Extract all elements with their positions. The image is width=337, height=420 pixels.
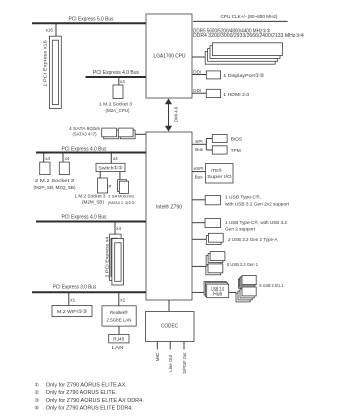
svg-text:Super I/O: Super I/O [207,174,232,180]
wire hub to 8 USB [229,291,236,293]
ports 8 USB upper stack [238,279,252,288]
svg-text:Gen 2 support: Gen 2 support [225,227,256,233]
wire eSPI bus [192,171,205,173]
M.2 socket M2Q_SB [59,162,69,175]
svg-text:1 HDMI 2.0: 1 HDMI 2.0 [223,92,249,98]
svg-text:Only for Z790 AORUS ELITE.: Only for Z790 AORUS ELITE. [46,390,117,396]
wire USB-C Gen2 [192,222,205,224]
ports 8 USB lower stack [236,293,250,302]
svg-text:SPI: SPI [195,139,202,144]
svg-text:x4: x4 [113,156,118,161]
svg-text:x1: x1 [120,298,125,303]
svg-text:①: ① [35,382,40,388]
svg-text:1 DisplayPort①②: 1 DisplayPort①② [223,73,265,79]
iTE Super I/O box [205,164,233,183]
wire SPI bus [192,143,206,145]
svg-text:x1: x1 [70,298,75,303]
BIOS box [212,135,227,143]
PCIe x4 slot back [110,234,122,280]
port HDMI [206,89,220,97]
svg-text:DMI 4.0: DMI 4.0 [173,106,178,122]
svg-text:TPM: TPM [231,148,241,154]
wire 5 USB 3.2 Gen1 [192,265,206,267]
svg-text:PCI Express 4.0 Bus: PCI Express 4.0 Bus [62,215,107,221]
RJ45 box [109,334,129,343]
M.2 socket M2P_SB [40,162,50,175]
svg-text:BIOS: BIOS [231,137,242,143]
wire PCI Express 5.0 Bus [32,22,146,24]
wire 2 USB 3.2 Gen2 [192,238,206,240]
svg-text:1 USB Type-C®,: 1 USB Type-C®, [225,194,261,201]
svg-text:2 M.2 Socket 3: 2 M.2 Socket 3 [35,178,74,184]
svg-text:1 M.2 Socket 3: 1 M.2 Socket 3 [75,194,106,200]
PCIe x16 slot PCIEX16 [49,36,61,108]
PCIe x4 slot front [112,239,124,285]
svg-text:(M2P_SB, M2Q_SB): (M2P_SB, M2Q_SB) [34,185,76,191]
svg-text:DDR4 3200/3000/2933/2666/2400/: DDR4 3200/3000/2933/2666/2400/2133 MHz③④ [193,33,305,39]
wire drop M2P [43,153,45,163]
svg-text:2 SATA 6Gb/s: 2 SATA 6Gb/s [108,194,134,199]
svg-text:DDI: DDI [193,69,201,74]
wire drop M2Q [62,153,64,163]
USB 2.0 hub box [204,281,226,295]
svg-text:x16: x16 [46,28,54,33]
svg-text:Only for Z790 AORUS ELITE DDR4: Only for Z790 AORUS ELITE DDR4. [46,406,133,412]
svg-text:②: ② [35,390,40,396]
svg-text:DDI: DDI [193,88,201,93]
ports 2 USB 3.2 Gen 2 Type-A [206,236,221,245]
wire PCI Express 4.0 Bus (CPU) [86,76,147,78]
svg-text:CPU CLK+/- (80~800 MHz): CPU CLK+/- (80~800 MHz) [221,14,278,20]
SATA connectors 2-3 [118,180,127,192]
M.2 socket M2M_SB [98,178,108,193]
wire PCI Express 4.0 Bus 1 [36,152,146,154]
svg-text:4 SATA 6Gb/s: 4 SATA 6Gb/s [69,126,101,132]
svg-text:Switch①②: Switch①② [99,166,124,172]
svg-text:1 M.2 Socket 3: 1 M.2 Socket 3 [99,102,132,108]
svg-text:5 USB 3.2 Gen 1: 5 USB 3.2 Gen 1 [227,262,258,268]
svg-text:with USB 3.2 Gen 2x2 support: with USB 3.2 Gen 2x2 support [225,202,290,208]
port USB-C 2x2 [205,196,220,205]
M.2 WIFI box [52,306,92,317]
svg-text:Only for Z790 AORUS ELITE AX D: Only for Z790 AORUS ELITE AX DDR4. [46,398,144,404]
wire USB-C 2x2 [192,199,205,201]
svg-text:Intel® Z790: Intel® Z790 [156,204,182,211]
chipset U2 Intel Z790 [146,132,192,300]
svg-text:x4: x4 [45,156,50,161]
svg-text:2 PCI Express x4: 2 PCI Express x4 [105,236,111,277]
wire x16 drop [55,23,57,36]
TPM box [212,146,227,154]
port USB-C Gen2 [205,219,221,228]
DMI 4.0 arrow [168,103,170,127]
M.2 socket M2A_CPU [113,85,123,99]
svg-text:PCI Express 4.0 Bus: PCI Express 4.0 Bus [62,146,107,152]
SATA connectors 4-7 [104,130,119,139]
svg-text:Bus: Bus [195,174,204,179]
wire drop PCIe x4 slots [114,222,116,235]
Realtek LAN box [102,306,136,326]
svg-text:S/PDIF Out: S/PDIF Out [182,352,187,374]
wire LAN to RJ45 [118,326,120,334]
svg-text:(SATA3 4~7): (SATA3 4~7) [73,132,97,138]
svg-text:Line Out: Line Out [168,354,173,372]
svg-text:③: ③ [35,398,40,404]
wire chipset to codec [168,300,170,312]
ports 5 USB 3.2 Gen 1 [206,256,221,265]
svg-text:x4: x4 [65,156,70,161]
svg-text:x4: x4 [116,226,121,231]
wire CPU CLK [193,20,288,22]
svg-text:④: ④ [35,406,40,412]
svg-text:8 USB 2.0/1.1: 8 USB 2.0/1.1 [259,283,283,289]
wire DDI HDMI [192,92,206,94]
svg-text:eSPI: eSPI [194,166,204,171]
CODEC box [146,312,195,342]
wire SATA to chipset [135,133,146,135]
svg-text:CODEC: CODEC [161,324,178,330]
wire switch to M2M [99,172,101,179]
svg-text:Hub: Hub [213,292,222,298]
svg-text:Only for Z790 AORUS ELITE AX.: Only for Z790 AORUS ELITE AX. [46,382,127,388]
svg-text:1 PCI Express x16: 1 PCI Express x16 [42,40,48,87]
svg-text:iTE®: iTE® [211,167,222,174]
svg-text:2.5GbE LAN: 2.5GbE LAN [107,318,132,324]
wire drop LAN [118,292,120,306]
svg-text:Bus: Bus [195,147,204,152]
wire CPU to DIMM [192,56,207,58]
port DisplayPort [206,71,220,79]
wire USB hub [192,291,207,293]
wire DDI DisplayPort [192,74,206,76]
wire Line Out [169,342,171,350]
svg-text:PCI Express 3.0 Bus: PCI Express 3.0 Bus [53,284,97,290]
wire MIC [156,342,158,350]
svg-text:x4: x4 [120,79,125,84]
svg-text:Realtek®: Realtek® [110,309,128,316]
wire drop switch [110,153,112,164]
svg-text:PCI Express 4.0 Bus: PCI Express 4.0 Bus [93,70,139,76]
svg-text:(M2M_SB): (M2M_SB) [82,199,104,205]
wire x4 drop to M2A [118,77,120,85]
svg-text:LGA1700 CPU: LGA1700 CPU [154,54,186,60]
svg-text:(SATA3 2, 3)①②: (SATA3 2, 3)①② [108,200,135,205]
wire PCI Express 4.0 Bus 2 [36,221,146,223]
wire SPDIF Out [183,342,185,350]
wire PCI Express 3.0 Bus [32,291,146,293]
svg-text:LAN: LAN [112,345,125,351]
DIMM slot stack [205,52,275,65]
svg-text:1 USB Type-C®, with USB 3.2: 1 USB Type-C®, with USB 3.2 [225,219,287,226]
switch box [96,163,125,171]
svg-text:M.2 WIFI①③: M.2 WIFI①③ [57,309,88,315]
svg-text:(M2A_CPU): (M2A_CPU) [106,108,130,114]
svg-text:RJ45: RJ45 [113,337,124,343]
svg-text:2 USB 3.2 Gen 2 Type-A: 2 USB 3.2 Gen 2 Type-A [228,237,278,243]
svg-text:or: or [107,184,112,190]
wire switch to SATA23 [119,172,121,180]
CPU U1 LGA1700 [146,14,192,98]
svg-text:PCI Express 5.0 Bus: PCI Express 5.0 Bus [69,17,114,23]
svg-text:MIC: MIC [155,352,160,361]
wire drop WIFI [68,292,70,305]
